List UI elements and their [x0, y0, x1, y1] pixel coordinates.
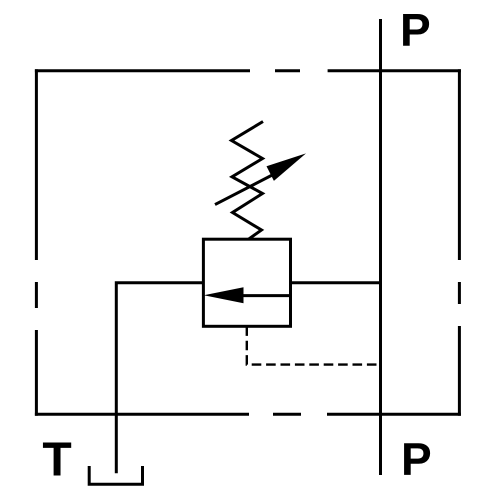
valve flow arrow [204, 287, 291, 303]
enclosure right border [458, 69, 461, 416]
enclosure left border [35, 69, 38, 416]
P supply line [379, 19, 382, 475]
enclosure bottom border [35, 413, 461, 416]
wire valve to tank [116, 283, 203, 474]
enclosure top border [35, 69, 461, 72]
pilot line (dashed) [247, 326, 379, 364]
port label T [43, 442, 71, 475]
port label P (bottom) [404, 443, 430, 475]
port label P (top) [403, 14, 429, 46]
tank symbol T [89, 466, 142, 484]
valve body V1 [203, 239, 290, 326]
spring [232, 122, 264, 240]
adjustment arrow [215, 153, 306, 204]
wire valve to P line [291, 281, 381, 284]
